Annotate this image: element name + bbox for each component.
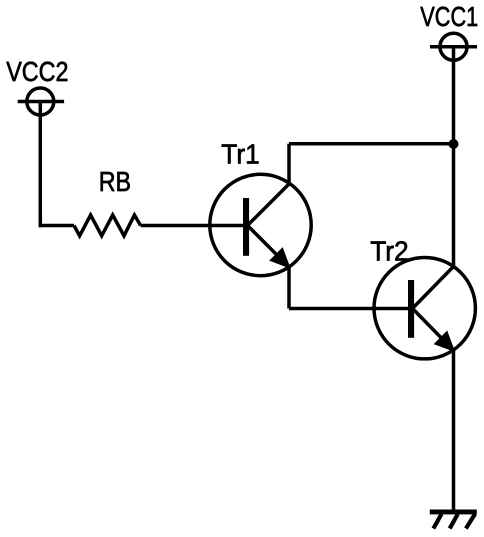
wire VCC2 down [39, 102, 43, 228]
svg-text:VCC1: VCC1 [420, 2, 478, 33]
wire VCC2 to resistor [39, 224, 74, 228]
wire collector to VCC1 line [289, 142, 454, 146]
power port VCC1 [430, 33, 477, 60]
transistor Tr1 [210, 174, 311, 275]
resistor RB [74, 215, 141, 236]
transistor Tr2 [374, 258, 475, 359]
wire Tr1 emitter down [287, 267, 291, 309]
svg-text:Tr1: Tr1 [221, 138, 259, 170]
wire Tr2 emitter to ground [452, 350, 456, 512]
wire resistor to Tr1 base [141, 224, 244, 228]
junction node [449, 139, 459, 149]
svg-text:RB: RB [99, 167, 131, 197]
wire Tr1 collector up [287, 144, 291, 184]
svg-text:VCC2: VCC2 [6, 57, 68, 87]
wire VCC1 to junction and Tr2 collector [452, 47, 456, 267]
power port VCC2 [18, 88, 64, 115]
ground [430, 510, 477, 529]
wire to Tr2 base [289, 307, 409, 311]
